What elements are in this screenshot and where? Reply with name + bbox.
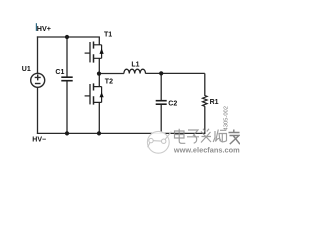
label U1 <box>22 66 31 73</box>
wire T1 drain lead <box>98 37 100 45</box>
svg-text:4305-002: 4305-002 <box>223 106 229 131</box>
watermark logo circle <box>147 131 171 153</box>
label C1 <box>55 69 64 76</box>
svg-text:C1: C1 <box>55 69 64 76</box>
wire C1 branch lower <box>66 81 68 133</box>
label HV- <box>32 137 46 144</box>
wire T2 source lead <box>98 102 100 133</box>
node bottom rail / T2 junction <box>97 131 101 135</box>
node L1 / C2 junction <box>159 71 163 75</box>
svg-text:T1: T1 <box>104 31 112 38</box>
figure number 305-002 (rotated) <box>223 106 229 131</box>
wire L1 to C2 node <box>145 72 161 74</box>
label T2 <box>105 79 113 86</box>
label C2 <box>168 101 177 108</box>
svg-text:R1: R1 <box>210 99 219 106</box>
inductor L1 <box>124 69 146 73</box>
svg-text:HV+: HV+ <box>37 24 51 33</box>
wire C1 branch upper <box>66 37 68 77</box>
wire R1 bottom lead <box>204 106 206 134</box>
label HV+ <box>37 24 51 33</box>
resistor R1 <box>203 96 208 107</box>
svg-text:www.elecfans.com: www.elecfans.com <box>173 145 240 154</box>
wire C2 branch lower <box>160 105 162 133</box>
transistor T2 (MOSFET) <box>85 83 104 104</box>
blue cursor tick at HV+ <box>35 23 37 31</box>
svg-text:HV−: HV− <box>32 137 46 144</box>
capacitor C1 <box>61 77 72 81</box>
watermark chinese characters <box>175 129 240 144</box>
svg-text:C2: C2 <box>168 101 177 108</box>
svg-text:L1: L1 <box>131 62 139 69</box>
label T1 <box>104 31 112 38</box>
svg-text:T2: T2 <box>105 79 113 86</box>
wire bottom rail HV- <box>37 132 205 134</box>
capacitor C2 <box>156 101 167 105</box>
transistor T1 (MOSFET) <box>85 42 104 63</box>
voltage source U1 <box>31 73 45 87</box>
wire C2 node to R1 corner <box>161 73 205 96</box>
wire T2 drain lead <box>98 74 100 87</box>
svg-text:U1: U1 <box>22 66 31 73</box>
label L1 <box>131 62 139 69</box>
node top rail / C1 junction <box>65 35 69 39</box>
wire output node to L1 <box>99 73 124 75</box>
wire T1 source lead <box>98 58 100 74</box>
wire left rail upper <box>37 36 39 73</box>
wire left rail lower <box>37 87 39 134</box>
node bottom rail / C1 junction <box>65 131 69 135</box>
watermark url <box>173 145 240 154</box>
wire C2 branch upper <box>160 73 162 100</box>
node T1/T2 output junction <box>97 72 101 76</box>
label R1 <box>210 99 219 106</box>
wire top rail HV+ <box>37 36 100 38</box>
